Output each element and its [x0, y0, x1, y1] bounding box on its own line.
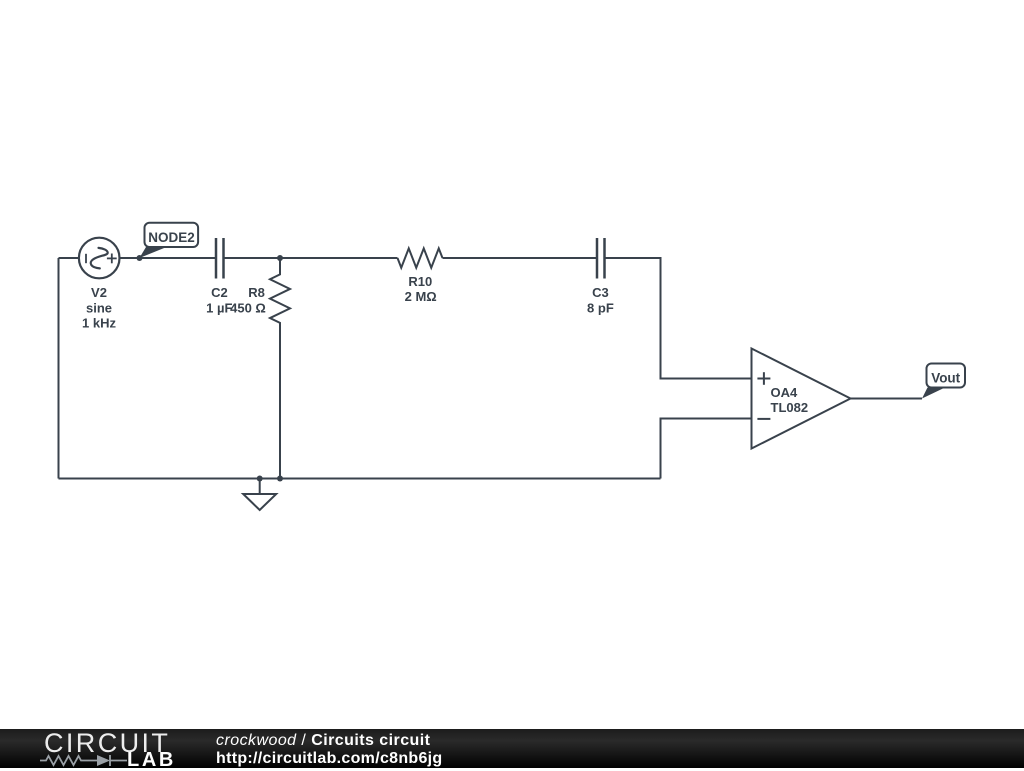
- svg-text:sine: sine: [86, 300, 112, 315]
- svg-text:C2: C2: [211, 285, 228, 300]
- component labels: [82, 274, 808, 415]
- capacitor C2: [215, 238, 218, 279]
- resistor R8: [270, 258, 290, 479]
- ground: [259, 479, 261, 495]
- wire bottom horizontal: [59, 478, 661, 480]
- svg-text:450 Ω: 450 Ω: [230, 301, 266, 316]
- svg-text:R10: R10: [408, 274, 432, 289]
- node flag Vout: [922, 364, 965, 399]
- junction C2/R8/R10: [277, 255, 283, 261]
- svg-text:TL082: TL082: [771, 400, 809, 415]
- logo CIRCUIT: [44, 730, 170, 757]
- wire left vertical: [58, 258, 60, 479]
- footer text: [216, 733, 443, 767]
- voltage source V2: [79, 238, 120, 279]
- wire C2 to R10: [224, 257, 398, 259]
- junction R8 bottom: [277, 476, 283, 482]
- node flag NODE2: [139, 223, 198, 258]
- footer bar: [0, 729, 1024, 768]
- logo LAB: [127, 750, 176, 770]
- junction node NODE2 at V2 output: [137, 255, 143, 261]
- resistor R10: [398, 248, 443, 267]
- svg-text:R8: R8: [248, 285, 265, 300]
- wire op-amp output: [851, 398, 923, 400]
- svg-text:8 pF: 8 pF: [587, 300, 614, 315]
- wire V2 to C2: [120, 257, 217, 259]
- svg-text:Vout: Vout: [931, 370, 960, 385]
- svg-text:OA4: OA4: [771, 385, 799, 400]
- wire top-left to V2: [59, 257, 80, 259]
- svg-text:1 µF: 1 µF: [206, 301, 232, 316]
- capacitor C3: [596, 238, 599, 279]
- wire bottom to op-amp - input: [661, 419, 752, 479]
- wire R10 to C3: [443, 257, 598, 259]
- junction ground tap: [257, 476, 263, 482]
- op-amp U: OA4 triangle: [752, 349, 851, 449]
- svg-text:2 MΩ: 2 MΩ: [405, 289, 437, 304]
- svg-text:C3: C3: [592, 285, 609, 300]
- wire C3 to op-amp + input: [605, 258, 752, 379]
- svg-text:V2: V2: [91, 285, 107, 300]
- svg-text:NODE2: NODE2: [148, 230, 195, 245]
- logo mark: resistor + diode: [0, 729, 135, 768]
- svg-text:1 kHz: 1 kHz: [82, 316, 116, 331]
